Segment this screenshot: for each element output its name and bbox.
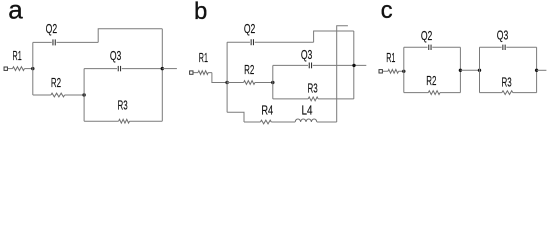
node junction [31, 67, 34, 70]
wire [8, 68, 13, 70]
resistor R3 [480, 74, 537, 94]
svg-text:R1: R1 [386, 50, 395, 65]
wire right rail a [161, 29, 163, 121]
svg-text:b: b [194, 0, 207, 25]
resistor R2 [404, 73, 461, 94]
svg-text:R3: R3 [118, 97, 128, 112]
svg-text:c: c [381, 0, 393, 24]
wire right rail c1 [459, 47, 461, 92]
junction [271, 81, 274, 84]
capacitor Q2 [227, 21, 314, 45]
capacitor Q3 [480, 28, 537, 50]
svg-text:R2: R2 [244, 62, 254, 77]
terminal input port b [190, 71, 193, 74]
svg-text:Q2: Q2 [46, 21, 58, 36]
svg-text:R2: R2 [51, 75, 61, 90]
svg-text:L4: L4 [302, 102, 313, 117]
wire bottom step b [227, 112, 244, 122]
svg-text:R1: R1 [13, 48, 22, 63]
junction output node b [352, 64, 355, 67]
resistor R2 [33, 75, 84, 97]
resistor R1 [13, 48, 25, 71]
resistor R3 [84, 97, 162, 123]
svg-text:a: a [8, 0, 23, 24]
junction [459, 69, 462, 72]
capacitor Q3 [84, 48, 162, 71]
inductor L4 [295, 102, 337, 122]
wire left rail c1 [403, 47, 405, 92]
resistor R2 [227, 62, 273, 84]
junction [478, 69, 481, 72]
svg-text:R1: R1 [199, 50, 208, 65]
wire left rail b [226, 42, 228, 112]
wire left rail a [32, 42, 34, 95]
junction output node a [161, 67, 164, 70]
svg-text:R4: R4 [261, 102, 273, 117]
wire output stub c [537, 69, 547, 71]
wire mid rail a [83, 69, 85, 122]
svg-text:Q3: Q3 [301, 47, 313, 62]
capacitor Q2 [404, 28, 461, 50]
wire block left rail b [272, 65, 274, 99]
svg-text:Q3: Q3 [110, 48, 122, 63]
wire right rail c2 [536, 47, 538, 92]
wire coupling c [460, 69, 479, 71]
wire top step b [314, 31, 354, 42]
resistor R1 [383, 50, 404, 73]
resistor R4 [244, 102, 295, 124]
resistor R3 [273, 81, 354, 101]
capacitor Q2 [33, 21, 98, 45]
svg-text:Q2: Q2 [421, 28, 433, 43]
terminal input port c [379, 70, 382, 73]
wire block right rail b with hook [337, 26, 348, 122]
svg-text:Q3: Q3 [497, 28, 509, 43]
svg-text:R3: R3 [308, 81, 318, 96]
wire [24, 68, 32, 70]
wire step down b [212, 73, 227, 83]
resistor R1 [193, 50, 212, 75]
wire output stub a [162, 68, 177, 70]
junction output node c [535, 69, 538, 72]
terminal input port a [4, 67, 7, 70]
svg-text:R3: R3 [502, 74, 512, 89]
junction [225, 81, 228, 84]
junction [82, 93, 85, 96]
svg-text:Q2: Q2 [244, 21, 256, 36]
wire left rail c2 [479, 47, 481, 92]
wire right rail b [353, 31, 355, 99]
svg-text:R2: R2 [426, 73, 436, 88]
wire top step a [98, 29, 162, 43]
node junction [402, 70, 405, 73]
capacitor Q3 [273, 47, 367, 68]
